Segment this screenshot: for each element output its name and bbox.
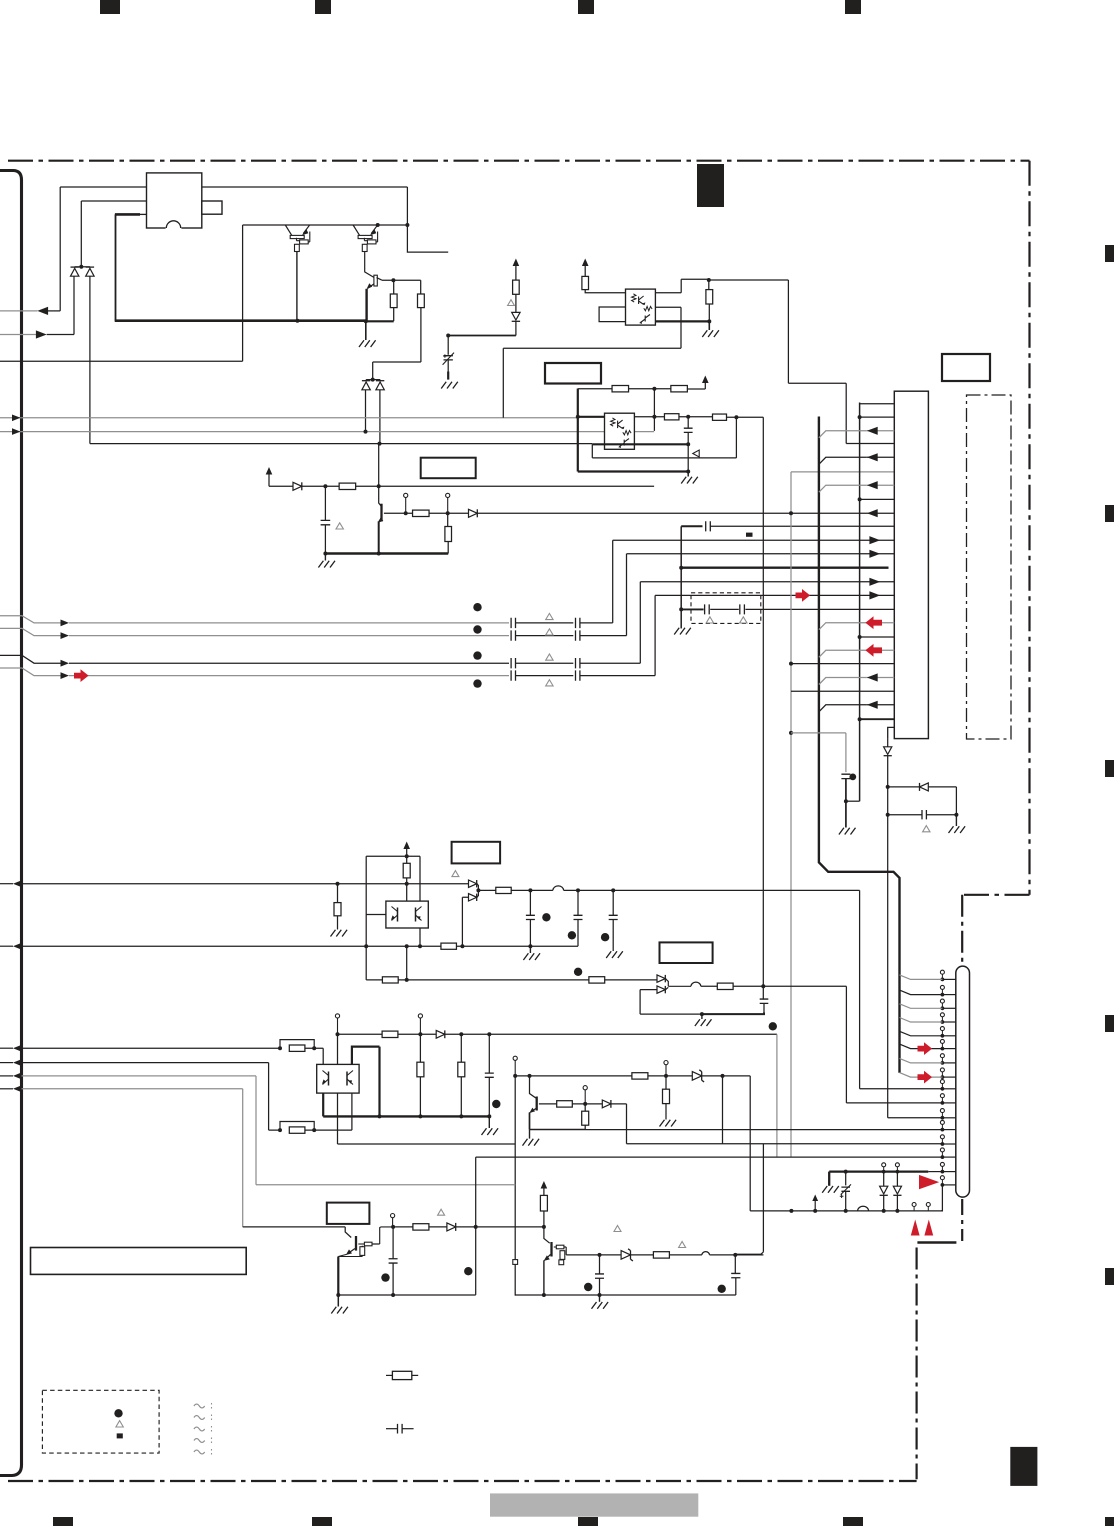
wire jog row 677.5 [819,678,867,685]
node 420-946 [418,944,422,948]
wire rowB riser [580,554,894,636]
pin CN2-15 stub [942,1171,955,1173]
wire 763 riser [735,1144,763,1254]
wire bus860 top corner [860,403,895,405]
node CN2-11 [941,1116,945,1120]
loop R21 [280,1122,314,1131]
ground Q6 [337,1295,339,1307]
node 280-1130 [278,1128,282,1132]
node 688-417 [686,415,690,419]
wire row12 long [530,1129,943,1131]
wire thick row 553 [325,552,448,554]
node CN2-2 [941,993,945,997]
supply arrow A6 [541,1181,548,1189]
wire row 884 [22,883,469,885]
resistor Q2 base-emitter [362,244,367,251]
supply arrow A2 [513,259,520,267]
pin CN2-7 stub [942,1062,955,1064]
wire row 663 [791,663,894,665]
wire 362 row [373,362,421,380]
wire C12 thick [702,1013,764,1015]
node D89 [476,888,480,892]
arrow rowC [61,660,70,667]
triangle tC5 [706,617,713,623]
arrow row1076 [0,1075,13,1077]
triangle marker t1 [336,523,343,529]
node CN2-7 [941,1061,945,1065]
wire thick drop 577 [577,389,579,472]
pin CN2-5 stub [942,1035,955,1037]
capacitor C12 [760,999,769,1003]
IC U4 box [317,1064,359,1093]
node 956-815 [954,813,958,817]
wire row14 long [476,1156,943,1158]
triangle marker t3 left [693,450,699,457]
node C2 top [446,334,450,338]
node 860-719 [858,717,862,721]
wire long row 513 [477,512,894,514]
node d1-1171 [882,1170,886,1174]
diode D15 [447,1223,456,1231]
crop mark bottom 1 [53,1517,73,1526]
wire row p10 [846,1102,942,1104]
resistor R13 [337,884,339,903]
legend squiggle 4 [194,1439,205,1443]
node 393-1227 [391,1225,395,1229]
resistor R25 [557,1101,573,1107]
wire rowD riser [580,595,894,675]
wire 681 vertical [680,526,682,628]
capacitor C9 [529,890,531,915]
wire R6-D5 [515,294,517,312]
node 666-1076 [664,1074,668,1078]
pin CN2-8 stub [942,1076,955,1078]
arrow row513 left [867,509,878,517]
wire rowC gray [69,662,509,664]
bus thick vertical 819 [819,417,900,1073]
node 702-1014 [700,1012,704,1016]
node 544-1227 [542,1225,546,1229]
bullet b578 [574,968,582,976]
wire line B [81,201,146,267]
ferrite L1 [553,886,564,891]
capacitor CC2 [576,658,580,668]
diode D4 [469,509,478,517]
wire row 389 a [578,388,612,390]
node B-diodes [79,265,83,269]
node d2-1171 [896,1170,900,1174]
wire row 335 [448,335,516,337]
legend squiggle 1 [194,1404,205,1408]
wire rowA gray [69,622,509,624]
resistor R20 [289,1045,305,1051]
diode D7 [920,783,929,791]
node CN2-6 [941,1047,945,1051]
node 846-1211 [844,1209,848,1213]
wire row 486 a [269,485,293,487]
node 406-856 [405,854,409,858]
red arrow pin6 [918,1042,933,1055]
pin CN2-10 stub [942,1102,955,1104]
wire row13 long [627,1143,943,1145]
wire D2b drop2 [378,444,380,487]
pin CN2-11 stub [942,1117,955,1119]
ground U2 [687,472,689,477]
wire jog row 430.8 [819,431,867,438]
wire jog row 485.2 [819,485,867,492]
diode D8 [469,880,477,887]
wire D1b drop [89,276,91,443]
zener cap Z1 [845,1172,847,1186]
wire jog row 704.8 [819,705,867,712]
resistor R15 [403,863,410,878]
resistor R16 [496,887,511,893]
triangle tC8 [923,826,930,832]
wire row 980 a [366,979,382,981]
wire Q7 base res [554,1246,557,1248]
resistor R29 [360,1247,365,1256]
resistor R27 [632,1073,648,1079]
wire Q-node drop [407,225,448,252]
ground C15 [599,1295,601,1302]
wire D10-986 [665,979,691,987]
bus medium vertical 860 [859,403,861,802]
wire U1 thick out [655,320,709,322]
pin CN2-6 stub [942,1048,955,1050]
node 815-1211 [813,1209,817,1213]
wire U4 thick right [352,1047,380,1117]
capacitor C1 [324,486,326,520]
resistor R-Q3b [418,294,425,308]
node thick-Q3e [364,319,368,323]
node 578-890 [576,888,580,892]
node 681-568 [679,566,683,570]
node 791-513 [789,511,793,515]
node 791-1211 [789,1209,793,1213]
wire D13 out [611,1104,627,1144]
supply arrow A1 [266,467,273,475]
legend bullet [114,1409,122,1417]
node CN2-12 [941,1128,945,1132]
wire thick row 568 [681,567,888,569]
bullet b773 [769,1022,777,1030]
wire U1 right b [655,307,681,348]
wire loop left [365,856,367,946]
wire bus890 drop [859,890,861,1088]
node 406-980 [405,978,409,982]
gray title block [490,1493,698,1516]
wire row 1076 b [648,1075,692,1077]
supply arrow A3 [582,259,589,267]
wire zener out [702,1075,751,1077]
wire pin16 drop [941,1185,942,1211]
pin P1 [404,493,408,497]
wire thick row 471 [578,470,688,472]
node 379-1116 [378,1114,382,1118]
node 688-471 [686,470,690,474]
crop mark top 4 [845,0,861,14]
triangle marker t2 [508,300,515,306]
wire thick row 417 [578,416,605,418]
bullet bD [473,679,481,687]
bullet bB [473,625,481,633]
pin CN2-9 stub [942,1088,955,1090]
wire row p11 [888,1117,943,1119]
wire row 1295 right [515,1294,736,1296]
wire rowB mid [516,635,574,637]
dashed box DB1 [691,593,761,624]
page border notch vertical (dash-dot) [915,1248,917,1480]
wire gray cap feed [791,733,846,772]
wire Q6 emitter [337,1257,339,1296]
resistor R3 [339,483,356,489]
capacitor C8 [922,810,926,819]
label box LB4 [452,842,501,864]
triangle tA [546,613,553,619]
pin CN2-11 circle [940,1109,944,1113]
node 489-1116 [487,1114,491,1118]
wire row 1227 right [393,1226,544,1228]
pin CN2-13 circle [940,1135,944,1139]
arrow row418 [12,415,21,422]
wire row OUT1 gray [0,310,38,312]
resistor R28 [665,1076,667,1089]
node 846-801 [844,799,848,803]
node 613-890 [611,888,615,892]
node 530-946 [528,944,532,948]
node Q3c-R [391,278,395,282]
IC U1 box [626,289,656,325]
wire D2 join [366,379,380,381]
node 477-1227 [474,1225,478,1229]
node row432-D2a [364,430,368,434]
crop mark top 1 [100,0,120,14]
supply arrow A7 [814,1200,816,1211]
node 544-1295 [542,1293,546,1297]
node CN2-16 [941,1183,945,1187]
transistor Q1 [285,225,292,235]
ground 681 [680,627,682,630]
label box LB3 [421,458,476,479]
wire jog row 650.3 [819,650,867,657]
ferrite L2 [691,982,701,986]
wire thick row 320 [115,319,366,322]
arrow IN1 right [36,330,47,338]
transistor Q5 [530,1076,536,1098]
pin CN2-14 stub [942,1156,955,1158]
wire thick row 444 [592,443,688,445]
wire 477 vert [475,1157,477,1295]
crop mark right 1 [1105,245,1114,262]
pin CN2-14 circle [940,1148,944,1152]
node 897-1211 [895,1209,899,1213]
bullet bA [473,603,481,611]
wire rowD mid [516,675,574,677]
wire 688 drop [687,444,689,471]
node 530-1076 [528,1074,532,1078]
arrow row946 left [0,945,13,947]
wire 736 drop [735,417,737,458]
resistor R17 [382,977,398,983]
arrow rowD right [869,591,880,599]
wire 1255 b [631,1254,654,1256]
IC U4 interior [328,1072,330,1086]
diode D13 [602,1100,611,1108]
wire rowA lead-in [0,616,61,623]
crop mark right 2 [1105,505,1114,522]
wire line C thick [115,213,140,216]
resistor R9 [612,386,629,392]
wire row 280 long [709,280,846,444]
diode D12 [436,1030,445,1038]
wire 366 drop [365,946,367,980]
pin P4 [418,1014,422,1018]
wire row 1227 left [243,1227,352,1238]
bullet bC13 [492,1100,500,1108]
resistor R8 [706,290,713,304]
arrow row 677.5 left [867,673,878,681]
ground C2 [441,382,458,389]
wire U1 loop [599,307,625,322]
wire row 1089 gray [22,1089,243,1227]
wire rowD gray [69,675,509,677]
IC U1 interior [632,294,636,302]
bullet bC11 [601,933,609,941]
wire U2 right row [634,416,664,418]
ground 1116 [488,1116,490,1128]
capacitor C10 [577,890,579,915]
resistor R6 [513,280,520,294]
node R8 top [707,278,711,282]
capacitor CA1 [511,618,515,628]
node 462-946 [460,944,464,948]
node 489-1034 [487,1032,491,1036]
pin CN2-8 circle [940,1068,944,1072]
black marker box bottom right [1010,1447,1037,1486]
node 791-663 [789,662,793,666]
wire rowC mid [516,662,574,664]
wire D1 tops join [75,266,90,268]
node 406-946b [405,944,409,948]
wire jog pin3 [900,1004,943,1009]
wire U4 thick left [322,1093,324,1116]
triangle tB [546,629,553,635]
wire row 443 into box [846,443,894,445]
wire line C drop [115,214,117,320]
wire jog pin7 [900,1058,943,1063]
arrow row 457.3 left [867,453,878,461]
pin circle d1 [882,1163,886,1167]
diode pair D1a [71,268,79,276]
wire U4 mid drop [337,1093,339,1144]
resistor R21 [289,1127,305,1133]
pin CN2-13 stub [942,1143,955,1145]
ferrite L3 [702,1252,710,1255]
node 600-1255 [598,1253,602,1257]
diode D10 [657,975,665,982]
resistor R19 [717,983,733,989]
node 486-2 [377,484,381,488]
loop R20 [280,1040,314,1049]
pin CN2-4 circle [940,1013,944,1017]
red arrow pin8 [918,1071,933,1084]
node 791-733 [789,731,793,735]
wire jog pin4 [900,1018,943,1023]
legend squiggle 5 [194,1450,205,1454]
node Q4e-553 [377,552,381,556]
bullet bC7 [849,774,856,781]
node 860-417 [858,415,862,419]
diode D9 [469,894,477,901]
transistor Q6 [355,1236,357,1251]
triangle tD [546,680,553,686]
node CN2-4 [941,1020,945,1024]
pin P2 [446,493,450,497]
wire Q5 emitter row [530,1128,586,1130]
wire rowB gray [69,635,509,637]
capacitor C4 [706,521,711,531]
crop mark right 4 [1105,1015,1114,1032]
wire 681 top corner [681,525,702,527]
wire U1 right a [655,279,708,292]
wire gray row 432 [0,431,654,433]
supply arrow A5 [403,842,410,850]
supply arrow A4 [702,376,709,384]
legend resistor [386,1374,392,1376]
wire Q4 base row [384,512,413,514]
wire row 1211 [750,1210,942,1212]
triangle t1245 [679,1242,686,1248]
ground 829 [822,1186,839,1193]
wire D5 drop [515,321,517,335]
pin P8 [391,1214,395,1218]
big label box LB8 [31,1248,247,1275]
node 314-1130 [312,1128,316,1132]
arrow rowB [61,632,70,639]
page border right (dash-dot) [1028,161,1030,895]
node CN2-14 [941,1155,945,1159]
pin P5 [513,1056,517,1060]
node 681-609 [679,607,683,611]
wire D8D9 join [477,884,479,898]
wire row 890 a [478,889,495,891]
red arrow row 622.7 [865,616,882,629]
capacitor CC1 [511,658,515,668]
legend capacitor [386,1428,398,1430]
capacitor CB1 [511,630,515,640]
red triangle up 2 [924,1220,933,1236]
black square marker sq1 [746,533,753,537]
pin CN2-9 circle [940,1080,944,1084]
pin CN2-12 stub [942,1129,955,1131]
wire row417r [860,416,895,418]
wire rowB lead-in [0,628,61,635]
wire line A [60,186,407,188]
wire jog pin8 [900,1073,943,1078]
transistor Q4 [380,504,382,522]
crop mark bottom 4 [843,1517,863,1526]
wire row 815 [888,814,922,816]
connector J1 body [147,173,202,228]
pin CN2-5 circle [940,1027,944,1031]
resistor R18 [589,977,605,983]
node thick-Q1 [295,319,299,323]
wire row719r [860,718,895,720]
pin CN2-1 stub [942,978,955,980]
transistor Q2 [353,225,360,235]
legend squiggle 2 [194,1416,205,1420]
bullet b468 [464,1267,472,1275]
